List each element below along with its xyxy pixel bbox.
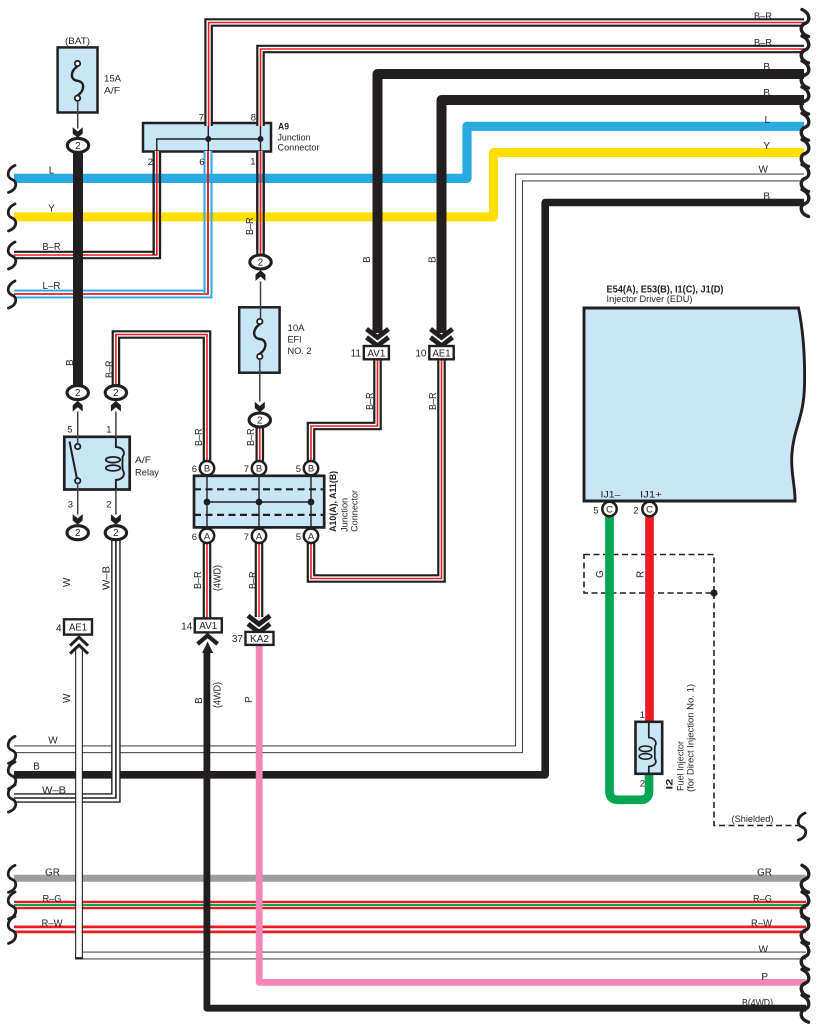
svg-text:AE1: AE1	[433, 348, 451, 359]
svg-text:5: 5	[67, 425, 72, 436]
svg-text:4: 4	[56, 624, 62, 635]
svg-text:37: 37	[232, 634, 244, 645]
svg-text:B: B	[428, 256, 439, 263]
svg-text:B: B	[362, 256, 373, 263]
wire R red from EDU IJ1+ to injector	[645, 513, 654, 722]
svg-text:2: 2	[75, 141, 80, 152]
junction connector A9 box	[143, 123, 271, 152]
EFI fuse lead to connector	[259, 359, 261, 402]
connector box 14 AV1	[195, 618, 222, 632]
A10 junction dots	[204, 499, 211, 506]
svg-text:2: 2	[258, 258, 263, 269]
connector 2 above relay pin1	[105, 386, 126, 400]
svg-text:B: B	[763, 192, 770, 203]
relay pin3 lead	[77, 483, 79, 514]
svg-text:P: P	[244, 696, 255, 703]
svg-text:Injector Driver (EDU): Injector Driver (EDU)	[607, 294, 693, 305]
svg-text:B: B	[256, 464, 262, 475]
wire B-R from A9 pin8 to right edge	[261, 49, 805, 126]
wire W from left edge to right edge	[14, 178, 804, 750]
svg-text:A/F: A/F	[104, 86, 120, 97]
svg-text:(Shielded): (Shielded)	[732, 814, 774, 825]
svg-text:8: 8	[251, 113, 256, 124]
svg-text:B–R: B–R	[365, 393, 376, 411]
svg-text:B: B	[204, 464, 210, 475]
svg-text:11: 11	[351, 348, 362, 359]
wire R-W	[14, 926, 806, 934]
svg-text:IJ1+: IJ1+	[640, 490, 663, 501]
svg-text:R–G: R–G	[753, 894, 772, 905]
arrow into relay pin5 connector	[73, 401, 83, 412]
svg-text:10: 10	[415, 348, 427, 359]
fuse 10A EFI NO.2 box	[239, 307, 279, 372]
svg-text:15A: 15A	[104, 74, 122, 85]
svg-text:B–R: B–R	[43, 242, 61, 253]
A9 pin1 connector 2	[250, 255, 271, 269]
wire B-R from A10 pin5B to connector AV1-11	[311, 360, 378, 462]
B-R pin1 stripe overdraw	[256, 151, 258, 250]
connector box 10 AE1	[429, 346, 453, 359]
A10 pin5A circle	[304, 529, 318, 543]
connector 2 above relay pin5	[67, 386, 88, 400]
svg-text:GR: GR	[757, 868, 772, 879]
connector box 37 KA2	[246, 632, 274, 645]
svg-text:A: A	[308, 531, 315, 542]
svg-text:B: B	[763, 62, 770, 73]
shield dashed box	[584, 555, 714, 594]
svg-text:A9: A9	[278, 122, 289, 133]
wire B-R from A9 pin2 to left edge	[14, 151, 157, 255]
svg-text:R–W: R–W	[751, 919, 773, 930]
EDU pin IJ1+ circle	[642, 502, 656, 516]
wire B-R from A10 pin7A to KA2-37	[255, 543, 264, 618]
svg-text:2: 2	[640, 778, 645, 789]
svg-text:B: B	[763, 88, 770, 99]
A10 pin5B circle	[304, 461, 318, 475]
svg-text:7: 7	[199, 113, 204, 124]
svg-text:W: W	[62, 577, 73, 587]
wire B from top edge to AV1-11	[378, 74, 805, 333]
A9 internal bus	[157, 139, 261, 151]
chevrons into AE1-10	[431, 329, 453, 338]
svg-text:2: 2	[75, 388, 80, 399]
right edge break symbols	[801, 10, 809, 37]
fuse 15A A/F (BAT) box	[58, 47, 98, 112]
svg-text:A/F: A/F	[135, 455, 151, 466]
arrow into A9 pin1 connector	[256, 270, 266, 281]
connector 2 below relay pin3	[67, 526, 88, 540]
svg-text:1: 1	[250, 157, 255, 168]
A10 dashed separator upper	[194, 488, 324, 490]
injector coil	[649, 722, 656, 774]
wire B-R from A9 pin1 to connector	[256, 151, 265, 255]
left edge break symbols	[8, 165, 16, 192]
svg-text:1: 1	[640, 710, 645, 721]
svg-text:2: 2	[75, 528, 80, 539]
svg-text:B–R: B–R	[754, 38, 772, 49]
svg-text:2: 2	[106, 500, 111, 511]
A10 pin7B circle	[252, 461, 266, 475]
svg-text:G: G	[595, 570, 606, 578]
svg-text:B–R: B–R	[428, 393, 439, 411]
svg-text:(4WD): (4WD)	[213, 682, 224, 708]
connector 2 below relay pin2	[105, 526, 126, 540]
shield junction dot	[710, 589, 717, 596]
chevron and wire tip below AV1-14	[198, 636, 218, 645]
shield dashed drop wire	[714, 593, 799, 826]
svg-text:AV1: AV1	[199, 621, 217, 632]
BAT fuse lead to connector	[77, 101, 79, 129]
svg-text:B: B	[65, 359, 76, 366]
svg-text:R–W: R–W	[42, 919, 64, 930]
wire Y yellow	[14, 153, 804, 217]
svg-text:Y: Y	[763, 141, 770, 152]
svg-text:KA2: KA2	[250, 634, 269, 645]
svg-text:W: W	[48, 736, 58, 747]
A9 junction dot pin8/1	[258, 136, 264, 142]
arrow into relay pin1 connector	[111, 401, 121, 412]
svg-text:A10(A), A11(B): A10(A), A11(B)	[328, 471, 339, 532]
svg-text:Relay: Relay	[135, 468, 159, 479]
svg-text:GR: GR	[45, 868, 60, 879]
svg-text:B–R: B–R	[194, 429, 205, 447]
svg-text:W: W	[759, 165, 769, 176]
svg-text:B–R: B–R	[246, 429, 257, 447]
relay pin2 lead	[115, 490, 117, 515]
wire P pink from KA2-37 to right edge	[259, 645, 806, 983]
fuel injector I2 box	[636, 722, 663, 774]
L-R pin6 stripe overdraw	[204, 151, 206, 294]
svg-text:W–B: W–B	[102, 566, 113, 590]
svg-text:1: 1	[106, 425, 111, 436]
svg-text:EFI: EFI	[288, 335, 302, 346]
wire B(4WD) from AV1-14 to right edge	[207, 650, 806, 1008]
svg-text:AE1: AE1	[69, 623, 87, 634]
svg-text:Connector: Connector	[350, 490, 361, 532]
svg-text:B–R: B–R	[193, 572, 204, 590]
svg-text:Y: Y	[48, 204, 55, 215]
chevrons into AV1-11	[367, 329, 389, 338]
connector box 11 AV1	[364, 346, 389, 359]
svg-text:R–G: R–G	[43, 894, 62, 905]
connector box 4 AE1	[64, 619, 92, 634]
svg-text:B: B	[194, 697, 205, 704]
wire B from BAT fuse to relay	[73, 153, 83, 386]
svg-text:L: L	[764, 115, 770, 126]
EDU pin IJ1- circle	[602, 502, 616, 516]
A10 pin6A circle	[200, 529, 214, 543]
wire W-B from relay pin2 to left edge	[14, 541, 116, 799]
svg-text:B–R: B–R	[754, 11, 772, 22]
svg-text:W–B: W–B	[42, 786, 66, 797]
wire R-G	[14, 901, 806, 909]
svg-text:5: 5	[296, 464, 301, 475]
svg-text:W: W	[62, 693, 73, 703]
svg-text:5: 5	[296, 532, 301, 543]
A10 dashed separator lower	[194, 514, 324, 516]
wire G green from EDU IJ1- to injector	[610, 513, 650, 800]
svg-text:2: 2	[113, 388, 118, 399]
chevrons into KA2-37	[248, 616, 270, 625]
svg-text:B–R: B–R	[105, 361, 116, 379]
chevrons below AE1-4	[70, 637, 88, 646]
junction connector A10(A) A11(B) box	[194, 476, 324, 528]
svg-text:B–R: B–R	[248, 572, 259, 590]
A10 pin6B circle	[200, 461, 214, 475]
wire B from left edge to right edge	[14, 203, 804, 775]
svg-text:L–R: L–R	[43, 281, 61, 292]
svg-text:7: 7	[244, 532, 249, 543]
wire L-R from A9 pin6 to left edge	[14, 151, 208, 294]
wire GR gray	[14, 875, 806, 882]
svg-text:3: 3	[68, 500, 73, 511]
svg-text:P: P	[761, 972, 768, 983]
wire B-R from A9 pin7 to right edge	[209, 23, 804, 127]
relay coil	[116, 437, 124, 490]
injector driver EDU box	[584, 308, 805, 501]
svg-text:2: 2	[257, 416, 262, 427]
connector 2 below BAT fuse	[67, 138, 88, 152]
connector 2 below EFI fuse	[249, 413, 270, 427]
svg-text:I2: I2	[665, 779, 676, 790]
svg-text:IJ1–: IJ1–	[601, 490, 622, 501]
svg-text:(for Direct Injection No. 1): (for Direct Injection No. 1)	[686, 684, 697, 792]
svg-text:C: C	[606, 505, 613, 516]
svg-text:2: 2	[148, 157, 153, 168]
svg-text:5: 5	[593, 506, 598, 517]
svg-text:A: A	[256, 531, 263, 542]
svg-text:W: W	[759, 945, 769, 956]
A10 internal pin lines	[206, 476, 208, 528]
wire B-R from A10 pin5A to connector AE1-10	[311, 360, 442, 579]
wire W vertical from AE1-4 down	[75, 648, 83, 959]
svg-text:B–R: B–R	[245, 218, 256, 236]
svg-text:6: 6	[199, 157, 204, 168]
wire B-R from relay pin1 to A10 pin6B	[116, 335, 207, 462]
svg-text:B(4WD): B(4WD)	[742, 998, 773, 1009]
shield break symbol	[798, 813, 806, 840]
relay switch contact	[70, 442, 77, 479]
svg-text:14: 14	[181, 622, 193, 633]
svg-text:10A: 10A	[288, 323, 306, 334]
A10 pin7A circle	[252, 529, 266, 543]
wire B-R from EFI fuse to A10 pin7B	[255, 428, 264, 462]
svg-text:A: A	[204, 531, 211, 542]
svg-text:AV1: AV1	[367, 348, 385, 359]
svg-text:NO. 2: NO. 2	[288, 346, 312, 357]
svg-text:L: L	[49, 166, 55, 177]
svg-text:2: 2	[113, 528, 118, 539]
wire L blue	[14, 126, 804, 178]
A9 junction dot pin7/6	[205, 136, 211, 142]
svg-text:C: C	[646, 505, 653, 516]
A10 internal bus	[207, 501, 311, 503]
svg-text:6: 6	[192, 532, 197, 543]
wire B from top edge to AE1-10	[442, 100, 805, 333]
svg-text:6: 6	[192, 464, 197, 475]
svg-text:B: B	[308, 464, 314, 475]
A/F relay box	[64, 437, 129, 490]
svg-text:(4WD): (4WD)	[213, 565, 224, 591]
svg-text:2: 2	[633, 506, 638, 517]
svg-text:(BAT): (BAT)	[65, 36, 90, 47]
wire B-R (4WD) from A10 pin6A to AV1-14	[203, 543, 212, 619]
svg-text:Connector: Connector	[278, 143, 320, 154]
svg-text:B: B	[33, 762, 40, 773]
wire W bottom horizontal from AE1-4 to right edge	[75, 952, 806, 960]
B-R pin2 stripe overdraw	[153, 151, 155, 255]
svg-text:R: R	[636, 571, 647, 578]
svg-text:7: 7	[244, 464, 249, 475]
